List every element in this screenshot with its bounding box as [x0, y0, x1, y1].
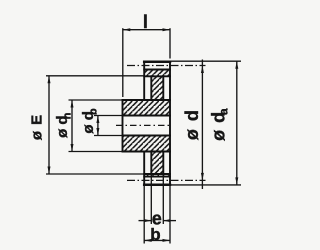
hub bottom face: [123, 151, 171, 153]
arrow d bottom: [201, 173, 204, 181]
da extension line bottom: [171, 184, 241, 186]
e extension line right (web right): [162, 174, 164, 224]
E dimension line: [48, 76, 50, 174]
rim right face bottom: [169, 152, 171, 185]
arrow E bottom: [48, 167, 51, 175]
b extension line left (rim left): [143, 186, 145, 244]
rim left face: [143, 62, 145, 100]
arrow db top: [96, 116, 99, 124]
arrow dn bottom: [71, 144, 74, 152]
e dimension line right stub: [163, 220, 176, 222]
arrow E top: [48, 76, 51, 84]
da extension line top: [171, 60, 241, 62]
da dimension line: [236, 61, 238, 185]
arrow d top: [201, 66, 204, 74]
hub top face: [123, 99, 171, 101]
arrow e right: [163, 219, 170, 222]
tooth root line top: [144, 69, 170, 71]
rim hatch bottom: [144, 174, 170, 177]
arrow b left: [144, 239, 152, 242]
pitch line top (dash-dot): [127, 65, 206, 67]
l dimension line: [123, 29, 170, 31]
E extension line bottom: [46, 173, 144, 175]
e extension line left (web left): [150, 174, 152, 224]
svg-text:ø d: ø d: [182, 109, 202, 141]
dn dimension line: [71, 100, 73, 152]
e dimension line left stub: [139, 220, 152, 222]
arrow da top: [235, 61, 238, 68]
svg-text:b: b: [150, 225, 160, 244]
l extension line right: [169, 28, 171, 58]
svg-text:ø da: ø da: [208, 107, 230, 140]
arrow l right: [163, 28, 171, 31]
arrow b right: [163, 239, 171, 242]
rim inner line bottom: [144, 173, 170, 175]
arrow da bottom: [235, 177, 238, 185]
web right face top: [162, 76, 164, 100]
svg-text:ø E: ø E: [29, 115, 46, 140]
arrow dn top: [71, 100, 74, 108]
dn extension line top: [69, 99, 123, 101]
bore top line: [123, 115, 171, 117]
tooth tip line top (thick): [144, 60, 170, 63]
bore bottom line: [123, 135, 171, 137]
b dimension line: [144, 239, 170, 241]
svg-text:ø db: ø db: [80, 108, 99, 134]
web right face bottom: [162, 152, 164, 175]
web left face top: [150, 76, 152, 100]
b extension line right (rim right): [169, 186, 171, 244]
svg-text:ø dn: ø dn: [54, 112, 73, 138]
arrow db bottom: [96, 128, 99, 136]
rim hatch top: [144, 70, 170, 77]
arrow e left: [144, 219, 151, 222]
db extension line bottom: [94, 135, 123, 137]
tooth tip line bottom (thick): [144, 184, 170, 187]
E extension line top: [46, 75, 144, 77]
hub hatch top: [123, 100, 171, 116]
web hatch top: [151, 76, 163, 100]
svg-text:l: l: [143, 12, 148, 32]
dn extension line bottom: [69, 151, 123, 153]
db dimension line: [97, 116, 99, 136]
axis centerline: [116, 124, 172, 126]
hub hatch bottom: [123, 136, 171, 152]
arrow l left: [123, 28, 131, 31]
pitch line bottom (dash-dot): [127, 179, 206, 181]
l extension line left: [122, 28, 124, 97]
rim inner line top: [144, 75, 170, 77]
hub right face / gear right face: [169, 100, 171, 152]
rim right face upper: [169, 62, 171, 100]
web left face bottom: [150, 152, 152, 175]
d dimension line: [201, 60, 203, 190]
web hatch bottom: [151, 152, 163, 175]
db extension line top: [94, 115, 123, 117]
tooth root line bottom: [144, 176, 170, 178]
hub left face: [122, 100, 124, 152]
rim left face bottom: [143, 152, 145, 185]
